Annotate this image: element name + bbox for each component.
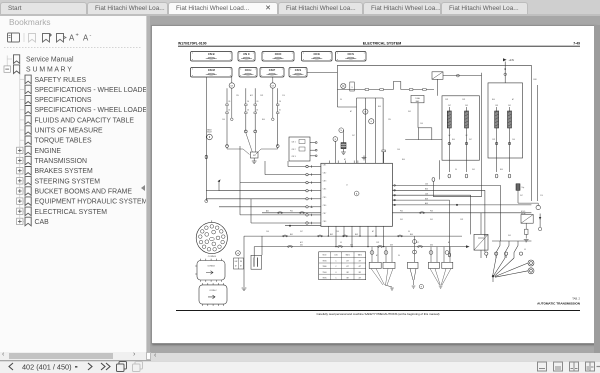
svg-text:402 (401 / 450): 402 (401 / 450) — [22, 362, 72, 371]
solenoid coil Y2 — [465, 107, 469, 132]
relay K3 — [251, 255, 262, 269]
node circle left bottom — [205, 200, 208, 203]
svg-text:D05: D05 — [472, 169, 475, 171]
svg-text:CN 2: CN 2 — [323, 173, 327, 175]
relay K1 output wires — [310, 142, 317, 157]
svg-text:A7: A7 — [372, 230, 374, 233]
svg-text:SPECIFICATIONS: SPECIFICATIONS — [35, 97, 92, 104]
wire bus junction dots — [328, 235, 385, 247]
sensor SP1 — [536, 203, 540, 210]
wire stub DR1 — [231, 77, 275, 121]
svg-text:B04: B04 — [378, 106, 381, 108]
ground G1 — [390, 288, 394, 290]
solenoid box SB1 — [442, 96, 479, 160]
svg-text:CN D: CN D — [275, 52, 282, 56]
svg-text:S: S — [351, 87, 352, 89]
svg-text:TAB 1: TAB 1 — [346, 254, 350, 257]
svg-text:F07: F07 — [520, 195, 523, 197]
svg-text:A7: A7 — [344, 158, 346, 161]
svg-text:SAFETY RULES: SAFETY RULES — [35, 77, 87, 84]
svg-text:GD: GD — [253, 155, 256, 157]
svg-text:C06: C06 — [222, 119, 225, 121]
solenoid group G3 — [428, 247, 452, 285]
svg-text:D05: D05 — [400, 219, 403, 221]
svg-text:CN2: CN2 — [376, 242, 379, 244]
svg-text:B04: B04 — [262, 119, 265, 121]
wire right cluster top — [492, 240, 531, 242]
svg-text:D05: D05 — [408, 111, 411, 113]
svg-text:SPECIFICATIONS - WHEEL LOADER: SPECIFICATIONS - WHEEL LOADER — [35, 107, 147, 114]
relay box K1 — [289, 137, 310, 161]
svg-text:+: + — [76, 33, 79, 39]
svg-text:W170/170PL-0100: W170/170PL-0100 — [178, 41, 207, 45]
ECU module box U1 — [321, 161, 393, 230]
resistor R6 — [525, 223, 529, 238]
svg-text:C06: C06 — [425, 184, 428, 186]
svg-text:C6: C6 — [247, 101, 249, 103]
svg-text:Carefully read personal and ma: Carefully read personal and machine SAFE… — [316, 312, 439, 316]
connector CN D — [262, 52, 294, 62]
svg-text:B02: B02 — [330, 234, 333, 236]
svg-text:C05: C05 — [465, 105, 468, 107]
ground K5 — [524, 240, 529, 242]
node N1 — [339, 128, 344, 133]
svg-text:C06: C06 — [266, 231, 269, 233]
wire vertical joins left fan — [206, 146, 288, 223]
tab bar — [0, 0, 600, 16]
svg-text:D05: D05 — [508, 235, 511, 237]
ground below GD — [252, 158, 257, 163]
svg-text:ELECTRICAL SYSTEM: ELECTRICAL SYSTEM — [35, 209, 108, 216]
svg-text:B04: B04 — [492, 99, 495, 101]
svg-text:M: M — [365, 111, 367, 113]
svg-text:24V: 24V — [388, 119, 392, 121]
svg-text:STEERING SYSTEM: STEERING SYSTEM — [35, 178, 101, 185]
svg-text:C06: C06 — [336, 231, 339, 233]
node B3 — [333, 137, 338, 142]
connector CN S2 — [289, 68, 307, 78]
svg-text:0V: 0V — [448, 135, 451, 137]
svg-text:SPECIFICATIONS - WHEEL LOADER: SPECIFICATIONS - WHEEL LOADER — [35, 87, 147, 94]
svg-text:CN 1: CN 1 — [292, 142, 296, 144]
connector CN H — [239, 68, 257, 78]
svg-text:TRANSMISSION: TRANSMISSION — [35, 158, 87, 165]
wire fan to ECU left pins — [206, 165, 321, 224]
connector CN E — [302, 52, 333, 62]
svg-text:A7: A7 — [512, 98, 514, 101]
svg-text:BR: BR — [359, 272, 362, 274]
svg-text:CN 7: CN 7 — [323, 213, 327, 215]
wire middle cluster verticals — [357, 98, 384, 163]
svg-text:CN P: CN P — [269, 68, 276, 72]
wire K4 up — [480, 213, 482, 258]
svg-text:UNITS OF MEASURE: UNITS OF MEASURE — [35, 128, 104, 135]
svg-text:B04: B04 — [402, 159, 405, 161]
svg-text:A: A — [356, 192, 358, 195]
svg-text:C06: C06 — [512, 139, 515, 141]
svg-text:CN2: CN2 — [260, 95, 263, 97]
svg-text:CN 8: CN 8 — [323, 221, 327, 223]
svg-text:DR: DR — [272, 85, 275, 87]
relay K5 — [521, 211, 533, 223]
label circle H — [419, 284, 423, 288]
ECU inner label A — [346, 185, 359, 196]
svg-text:COD: COD — [334, 255, 338, 257]
dotted separator — [4, 47, 142, 49]
separator — [23, 33, 25, 42]
svg-text:N: N — [341, 130, 343, 132]
svg-text:C03: C03 — [495, 105, 498, 107]
bookmark next — [57, 34, 64, 43]
svg-text:CONN.C: CONN.C — [209, 290, 217, 292]
svg-text:F07: F07 — [300, 231, 303, 233]
solenoid box SB2 — [488, 83, 523, 158]
svg-text:CN C: CN C — [243, 52, 250, 56]
header rule — [178, 45, 580, 47]
svg-text:TAB 2: TAB 2 — [358, 254, 362, 257]
connector CN S — [336, 52, 367, 62]
svg-text:CN2: CN2 — [492, 139, 495, 141]
svg-text:CONN.B: CONN.B — [207, 266, 215, 268]
svg-text:A12: A12 — [300, 241, 303, 244]
svg-text:U: U — [335, 272, 337, 274]
svg-text:C06: C06 — [420, 123, 423, 125]
wire verticals with inline fuses — [226, 88, 279, 146]
svg-text:A01: A01 — [266, 210, 269, 213]
solenoid group G1 — [369, 247, 395, 287]
svg-text:16: 16 — [247, 110, 249, 112]
component box B2 — [350, 82, 355, 91]
svg-text:LMP: LMP — [235, 261, 238, 263]
svg-text:CN 3: CN 3 — [323, 181, 327, 183]
svg-text:BUCKET BOOMS AND FRAME: BUCKET BOOMS AND FRAME — [35, 189, 133, 196]
connector CN M — [191, 68, 233, 78]
relay K2 — [432, 72, 443, 80]
svg-text:A7: A7 — [350, 110, 352, 113]
wire bus row 1 — [262, 212, 531, 214]
wire outer enclosure — [432, 73, 482, 197]
bookmark add — [43, 34, 50, 43]
svg-text:-: - — [90, 33, 92, 39]
solenoid valve double circles — [528, 260, 534, 274]
wire CN S2 to center box — [307, 71, 337, 73]
ground G3 — [439, 286, 443, 288]
svg-text:F03: F03 — [430, 211, 433, 213]
svg-text:B06: B06 — [425, 189, 428, 191]
connector CN P — [260, 68, 284, 78]
svg-text:7-49: 7-49 — [573, 41, 580, 45]
wire funnel to diode box — [227, 133, 278, 155]
svg-text:F4: F4 — [398, 255, 400, 257]
svg-text:B03: B03 — [355, 234, 358, 236]
wire bus row 3 — [244, 235, 462, 237]
capacitor C1 — [341, 143, 346, 149]
svg-text:A7: A7 — [235, 265, 237, 268]
wire fan from ECU right pins — [392, 185, 531, 257]
schematic SVG overlay — [150, 25, 594, 342]
svg-text:SW: SW — [240, 261, 243, 263]
svg-text:U: U — [346, 185, 348, 187]
connector CN C — [238, 52, 255, 62]
svg-text:C06: C06 — [397, 149, 400, 151]
svg-text:TAB. 2: TAB. 2 — [572, 296, 580, 300]
svg-text:BR: BR — [347, 272, 350, 274]
svg-text:CN 3: CN 3 — [292, 156, 296, 158]
svg-text:F4: F4 — [455, 169, 457, 171]
svg-text:CN S: CN S — [295, 68, 302, 72]
svg-text:F07: F07 — [469, 139, 472, 141]
svg-text:CN M: CN M — [208, 68, 216, 72]
svg-text:S U M M A R Y: S U M M A R Y — [26, 67, 72, 74]
svg-text:TM75: TM75 — [322, 277, 326, 279]
svg-text:0V: 0V — [466, 135, 469, 137]
svg-text:B: B — [335, 139, 337, 141]
lamp GB — [236, 251, 241, 256]
svg-text:A: A — [69, 34, 75, 43]
svg-text:C: C — [335, 261, 337, 263]
inline fuses on main run — [365, 89, 369, 91]
svg-text:C: C — [335, 277, 337, 279]
connector CONN C — [199, 283, 227, 306]
svg-text:D05: D05 — [430, 219, 433, 221]
svg-text:477: 477 — [346, 261, 349, 263]
svg-text:EQUIPMENT HYDRAULIC SYSTEM: EQUIPMENT HYDRAULIC SYSTEM — [35, 199, 147, 206]
node circles on verticals — [226, 130, 280, 147]
svg-text:F4: F4 — [408, 231, 410, 233]
svg-text:477: 477 — [358, 266, 361, 268]
terminal circles right cluster — [485, 252, 523, 258]
svg-text:D04: D04 — [430, 244, 433, 246]
wire labels scatter — [222, 94, 543, 257]
svg-text:MAX: MAX — [416, 100, 420, 103]
wire cluster links — [335, 107, 442, 163]
svg-text:CN S: CN S — [348, 52, 355, 56]
junction arrow — [218, 179, 221, 182]
svg-text:16: 16 — [256, 110, 258, 112]
svg-text:CN 6: CN 6 — [323, 205, 327, 207]
svg-text:G: G — [371, 121, 373, 123]
switch box SW1 — [234, 258, 244, 269]
svg-text:24V: 24V — [236, 95, 240, 97]
svg-text:A12: A12 — [250, 94, 253, 97]
table TAB selection — [319, 252, 366, 280]
svg-text:10µ: 10µ — [522, 187, 525, 189]
svg-text:CN2: CN2 — [445, 99, 448, 101]
svg-text:H: H — [421, 286, 423, 288]
svg-text:D01: D01 — [300, 244, 303, 246]
lamp L1 — [341, 83, 346, 88]
bookmark disabled — [29, 34, 36, 43]
svg-text:477: 477 — [346, 266, 349, 268]
svg-text:C07: C07 — [448, 105, 451, 107]
svg-text:A: A — [83, 34, 89, 43]
diode box GD — [250, 152, 258, 158]
svg-text:C6: C6 — [279, 101, 281, 103]
wire bus row 4 with arrow — [254, 246, 466, 248]
svg-text:D03: D03 — [390, 244, 393, 246]
motor M1 — [363, 109, 368, 114]
svg-text:B7: B7 — [240, 266, 242, 268]
svg-text:CN 5: CN 5 — [323, 197, 327, 199]
wire right rail F08 — [531, 65, 537, 201]
svg-text:0V: 0V — [524, 249, 527, 251]
wire top bus — [337, 65, 531, 107]
relay K4 — [474, 234, 488, 250]
svg-text:CN E: CN E — [314, 52, 321, 56]
svg-text:BRAKES SYSTEM: BRAKES SYSTEM — [35, 168, 93, 175]
svg-text:CAB: CAB — [35, 219, 50, 226]
solenoid coil Y1 — [447, 107, 451, 132]
svg-text:FLUIDS AND CAPACITY TABLE: FLUIDS AND CAPACITY TABLE — [35, 117, 135, 124]
svg-text:TM70: TM70 — [322, 261, 326, 263]
svg-text:C01: C01 — [508, 105, 511, 107]
fuse box F100 — [411, 95, 424, 102]
horn buzzer B1 — [206, 129, 212, 140]
svg-text:B04: B04 — [452, 139, 455, 141]
svg-text:F08: F08 — [534, 79, 537, 81]
sensor probe — [538, 214, 541, 231]
svg-text:F4: F4 — [340, 99, 342, 101]
svg-text:BUZZ: BUZZ — [207, 132, 211, 134]
ground mid — [362, 156, 367, 160]
sidebar — [0, 16, 146, 353]
svg-text:C14: C14 — [310, 207, 313, 209]
svg-text:CN H: CN H — [245, 68, 252, 72]
svg-text:DR: DR — [231, 85, 234, 87]
svg-text:+24V: +24V — [509, 59, 515, 62]
svg-text:477: 477 — [358, 261, 361, 263]
svg-text:CONN.B: CONN.B — [208, 256, 217, 258]
svg-text:16: 16 — [228, 110, 230, 112]
resistor R5 — [382, 150, 386, 152]
svg-text:16: 16 — [279, 110, 281, 112]
footer rule — [176, 310, 580, 312]
switch contacts — [496, 241, 518, 258]
wire K2 links — [438, 76, 482, 96]
svg-text:0V: 0V — [340, 242, 343, 244]
svg-text:TM80: TM80 — [322, 266, 326, 268]
svg-text:D02: D02 — [350, 244, 353, 246]
diode DR2 — [270, 83, 275, 88]
svg-text:100A: 100A — [415, 97, 420, 100]
svg-text:MOD: MOD — [323, 255, 328, 257]
wire left vertical from CN M — [205, 77, 207, 201]
svg-text:C14: C14 — [540, 195, 543, 197]
svg-text:CN B: CN B — [208, 52, 215, 56]
wire sensor link — [518, 190, 538, 203]
solenoid group G2 — [408, 236, 419, 285]
connector CONN B — [195, 259, 225, 282]
wire ECU bottom drops — [328, 229, 383, 246]
svg-text:C: C — [335, 266, 337, 268]
svg-text:C08: C08 — [425, 194, 428, 196]
svg-text:CN 4: CN 4 — [323, 189, 327, 191]
svg-text:B08: B08 — [425, 198, 428, 200]
svg-text:B04: B04 — [500, 169, 503, 171]
svg-text:F01: F01 — [290, 211, 293, 213]
svg-text:CN 1: CN 1 — [323, 165, 327, 167]
wire bus row 2 — [285, 225, 321, 226]
+24V supply flag — [503, 58, 515, 83]
svg-text:ENGINE: ENGINE — [35, 148, 62, 155]
circular connector CONN A — [196, 220, 227, 253]
wire below fuse box — [418, 103, 432, 128]
gauge G1 — [369, 119, 374, 124]
svg-text:CN2: CN2 — [460, 219, 463, 221]
svg-text:GB: GB — [237, 253, 239, 255]
viewer — [150, 16, 600, 353]
wire main horizontal run — [337, 82, 434, 90]
svg-text:TM-B: TM-B — [323, 272, 327, 274]
solenoid coil Y4 — [508, 107, 512, 132]
solenoid coil Y3 — [495, 107, 499, 132]
svg-text:B04: B04 — [484, 235, 487, 237]
svg-text:C6: C6 — [256, 101, 258, 103]
wire convergence — [492, 258, 528, 282]
panel toggle icon — [8, 33, 20, 42]
svg-text:Service Manual: Service Manual — [26, 57, 74, 64]
svg-text:C14: C14 — [282, 95, 285, 97]
svg-text:TORQUE TABLES: TORQUE TABLES — [35, 138, 92, 145]
bottom bars — [0, 352, 146, 360]
svg-text:F07: F07 — [352, 135, 355, 137]
capacitor C2 — [516, 184, 524, 191]
wire left drop to connectors — [244, 236, 262, 287]
node circle right of K2 — [457, 74, 460, 77]
svg-text:CN 2: CN 2 — [292, 149, 296, 151]
svg-text:AUTOMATIC TRANSMISSION: AUTOMATIC TRANSMISSION — [537, 301, 581, 305]
ground left drop — [242, 288, 247, 290]
svg-text:B04: B04 — [410, 234, 413, 236]
connector CN B — [191, 52, 233, 62]
svg-text:F02: F02 — [400, 211, 403, 213]
ground below capacitor — [341, 149, 346, 154]
svg-text:B01: B01 — [290, 234, 293, 236]
svg-text:CN2: CN2 — [462, 99, 465, 101]
diode DR1 — [229, 83, 234, 88]
ground G2 — [412, 286, 416, 288]
svg-text:A06: A06 — [425, 202, 428, 205]
svg-text:C6: C6 — [228, 101, 230, 103]
svg-text:ELECTRICAL SYSTEM: ELECTRICAL SYSTEM — [363, 41, 401, 45]
svg-text:477: 477 — [358, 277, 361, 279]
wire solenoid returns — [448, 132, 511, 178]
svg-text:BR: BR — [347, 277, 350, 279]
